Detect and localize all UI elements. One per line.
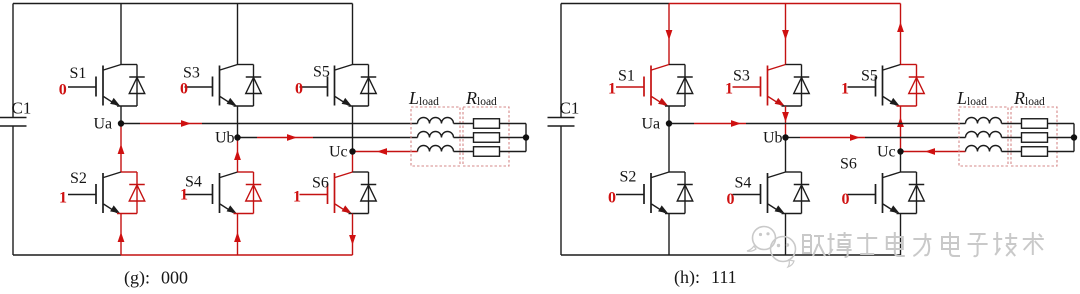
label S6 (h) xyxy=(840,156,857,173)
current arrow right on Ua line (h) xyxy=(731,120,741,127)
wire: S5 emitter to node Uc red (h) xyxy=(900,106,902,152)
label S3 (h) xyxy=(733,68,750,85)
svg-text:Rload: Rload xyxy=(1013,88,1045,108)
svg-text:0: 0 xyxy=(608,190,616,207)
svg-text:1: 1 xyxy=(59,190,67,207)
svg-text:Ua: Ua xyxy=(642,116,661,133)
inductor Lload phase 1 (h) xyxy=(966,118,1002,124)
wire: inductor to resistor phase 2 (h) xyxy=(1002,137,1022,139)
wire: load star point vertical (h) xyxy=(1073,124,1075,152)
label Lload (g) xyxy=(408,88,439,108)
resistor Rload phase 3 (g) xyxy=(474,147,500,157)
svg-text:S4: S4 xyxy=(735,175,752,192)
wire: inductor to resistor phase 3 (g) xyxy=(454,151,474,153)
transistor S2 IGBT (g) xyxy=(68,172,121,213)
wire: upper leg phase 2 red (h) xyxy=(785,4,787,65)
wire: S3 emitter to node Ub (g) xyxy=(237,106,239,138)
gate state value 1 of S1 (h) xyxy=(608,81,616,98)
label S5 (g) xyxy=(313,64,330,81)
svg-text:1: 1 xyxy=(293,189,301,206)
svg-text:Ub: Ub xyxy=(215,130,235,147)
wire: phase line Ua to load (g) xyxy=(202,123,418,125)
watermark character 9 xyxy=(1023,232,1044,255)
wire: phase line Ub red segment (h) xyxy=(800,137,865,139)
node Ua junction dot (g) xyxy=(118,120,124,126)
svg-text:1: 1 xyxy=(841,81,849,98)
svg-text:0: 0 xyxy=(59,82,67,99)
resistor Rload phase 1 (h) xyxy=(1022,119,1048,129)
anti-parallel diode of S1 (h) xyxy=(665,65,693,107)
wire: load star point vertical (g) xyxy=(525,124,527,152)
svg-text:Ub: Ub xyxy=(763,130,783,147)
label S2 (g) xyxy=(70,170,87,187)
label node Ua (g) xyxy=(94,116,113,133)
wire: resistor to star point phase 1 (g) xyxy=(500,123,527,125)
wire: inductor to resistor phase 1 (h) xyxy=(1002,123,1022,125)
label S4 (g) xyxy=(185,174,202,191)
wire: resistor to star point phase 2 (h) xyxy=(1048,137,1075,139)
watermark character 8 xyxy=(993,232,1017,256)
wire: bottom DC rail red part (g) xyxy=(121,254,353,256)
svg-text:0: 0 xyxy=(842,191,850,208)
svg-text:S6: S6 xyxy=(840,156,857,173)
gate state value 0 of S1 (g) xyxy=(59,82,67,99)
anti-parallel diode of S3 (g) xyxy=(234,65,262,107)
wire: bottom DC rail black part (g) xyxy=(13,254,121,256)
anti-parallel diode of S5 (g) xyxy=(349,65,377,107)
current arrow right on Ub line (g) xyxy=(287,134,297,141)
resistor group dashed box R (h) xyxy=(1011,107,1057,166)
anti-parallel diode of S3 (h) xyxy=(782,65,810,107)
gate state value 0 of S4 (h) xyxy=(727,191,735,208)
wire: node Ub down to S4 red (g) xyxy=(237,138,239,173)
wire: phase line Ua red segment (g) xyxy=(140,123,202,125)
wire: phase line Uc red return (g) xyxy=(353,151,418,153)
wire: node Ub down to S4 (h) xyxy=(785,138,787,173)
transistor S6 IGBT (h) xyxy=(848,172,901,213)
label node Uc (h) xyxy=(877,144,896,161)
label node Ua (h) xyxy=(642,116,661,133)
current arrow right on Ua line (g) xyxy=(181,120,191,127)
node Ub junction dot (g) xyxy=(234,134,240,140)
current arrow down through S6 (g) xyxy=(349,235,356,245)
svg-text:S2: S2 xyxy=(620,169,637,186)
watermark logo chat bubbles xyxy=(747,227,796,268)
wire: phase line Ub black lead (g) xyxy=(238,137,258,139)
wire: node Ua down to S2 red (g) xyxy=(120,124,122,173)
anti-parallel diode of S2 (g) xyxy=(117,172,145,214)
capacitor C1 (h) xyxy=(548,118,575,127)
current arrow up to rail at S5 (h) xyxy=(897,22,904,32)
wire: inductor to resistor phase 3 (h) xyxy=(1002,151,1022,153)
svg-text:Uc: Uc xyxy=(329,144,348,161)
transistor S1 IGBT (g) xyxy=(68,65,121,106)
wire: DC bus left vertical (h) xyxy=(560,4,562,256)
svg-text:S6: S6 xyxy=(312,175,329,192)
gate state value 1 of S3 (h) xyxy=(725,81,733,98)
wire: top DC rail (g) xyxy=(13,3,353,5)
wire: phase line Uc red return (h) xyxy=(901,151,966,153)
node Uc junction dot (h) xyxy=(897,148,903,154)
anti-parallel diode of S6 (g) xyxy=(349,172,377,214)
inductor Lload phase 1 (g) xyxy=(418,118,454,124)
label node Ub (g) xyxy=(215,130,235,147)
label Rload (h) xyxy=(1013,88,1045,108)
transistor S5 IGBT (g) xyxy=(300,65,353,106)
inductor Lload phase 3 (h) xyxy=(966,146,1002,152)
current arrow left on Uc line (h) xyxy=(925,148,935,155)
wire: phase line Ub to load (h) xyxy=(865,137,966,139)
node Ub junction dot (h) xyxy=(782,134,788,140)
wire: phase line Ua to load (h) xyxy=(746,123,966,125)
inductor group dashed box L (g) xyxy=(411,107,460,166)
wire: top DC rail red part (h) xyxy=(669,3,901,5)
svg-text:S2: S2 xyxy=(70,170,87,187)
resistor Rload phase 2 (h) xyxy=(1022,133,1048,143)
wire: phase line Ub black lead (h) xyxy=(786,137,801,139)
anti-parallel diode of S2 (h) xyxy=(665,172,693,214)
svg-text:C1: C1 xyxy=(560,99,580,118)
svg-text:Ua: Ua xyxy=(94,116,113,133)
wire: phase line Ua black lead (h) xyxy=(669,123,694,125)
svg-text:(g):: (g): xyxy=(124,268,150,289)
wire: upper leg phase 1 (g) xyxy=(120,4,122,65)
svg-text:0: 0 xyxy=(727,191,735,208)
wire: S2 to bottom rail red (g) xyxy=(120,214,122,256)
wire: S1 emitter to node Ua (h) xyxy=(668,106,670,124)
wire: S6 to bottom rail red (g) xyxy=(352,214,354,256)
caption (g): 000 xyxy=(124,268,188,289)
anti-parallel diode of S5 (h) xyxy=(897,65,925,107)
inductor Lload phase 3 (g) xyxy=(418,146,454,152)
gate state value 1 of S5 (h) xyxy=(841,81,849,98)
load star point junction dot (h) xyxy=(1071,134,1077,140)
node Uc junction dot (g) xyxy=(349,148,355,154)
transistor S4 IGBT (g) xyxy=(185,172,238,213)
wire: upper leg phase 1 red (h) xyxy=(668,4,670,65)
wire: S3 emitter to node Ub red (h) xyxy=(785,106,787,138)
svg-text:S1: S1 xyxy=(70,65,87,82)
label node Uc (g) xyxy=(329,144,348,161)
svg-text:Uc: Uc xyxy=(877,144,896,161)
wire: S6 to bottom rail (h) xyxy=(900,214,902,256)
current arrow up through S2 (g) xyxy=(118,232,125,242)
wire: phase line Ua black lead (g) xyxy=(121,123,140,125)
label S2 (h) xyxy=(620,169,637,186)
wire: phase line Ub red segment (g) xyxy=(257,137,313,139)
transistor S1 IGBT (h) xyxy=(616,65,669,106)
label S5 (h) xyxy=(861,68,878,85)
current arrow down S3 leg (h) xyxy=(782,112,789,122)
current arrow up to Ua (g) xyxy=(118,144,125,154)
label S1 (h) xyxy=(618,68,635,85)
label S6 (g) xyxy=(312,175,329,192)
load star point junction dot (g) xyxy=(523,134,529,140)
current arrow up to Ub (g) xyxy=(234,150,241,160)
wire: phase line Ua red segment (h) xyxy=(694,123,746,125)
wire: upper leg phase 2 (g) xyxy=(237,4,239,65)
label C1 (g) xyxy=(12,99,32,118)
current arrow up through S4 (g) xyxy=(234,232,241,242)
label S1 (g) xyxy=(70,65,87,82)
resistor group dashed box R (g) xyxy=(463,107,509,166)
wire: resistor to star point phase 1 (h) xyxy=(1048,123,1075,125)
current arrow right on Ub line (h) xyxy=(850,134,860,141)
wire: node Ua down to S2 (h) xyxy=(668,124,670,173)
svg-text:(h):: (h): xyxy=(674,267,700,288)
wire: DC bus left vertical (g) xyxy=(12,4,14,256)
resistor Rload phase 3 (h) xyxy=(1022,147,1048,157)
wire: resistor to star point phase 3 (h) xyxy=(1048,151,1075,153)
anti-parallel diode of S4 (g) xyxy=(234,172,262,214)
wire: top DC rail black part (h) xyxy=(561,3,669,5)
wire: S1 emitter to node Ua (g) xyxy=(120,106,122,124)
wire: bottom DC rail (h) xyxy=(561,254,901,256)
transistor S4 IGBT (h) xyxy=(733,172,786,213)
svg-text:111: 111 xyxy=(711,267,737,287)
transistor S5 IGBT (h) xyxy=(848,65,901,106)
wire: upper leg phase 3 (g) xyxy=(352,4,354,65)
gate state value 0 of S2 (h) xyxy=(608,190,616,207)
wire: resistor to star point phase 2 (g) xyxy=(500,137,527,139)
watermark character 2 xyxy=(828,232,852,257)
capacitor C1 (g) xyxy=(0,118,27,127)
watermark character 3 xyxy=(857,233,877,254)
caption (h): 111 xyxy=(674,267,737,288)
svg-text:1: 1 xyxy=(180,187,188,204)
svg-text:S3: S3 xyxy=(733,68,750,85)
current arrow down into S1 (h) xyxy=(666,30,673,40)
anti-parallel diode of S6 (h) xyxy=(897,172,925,214)
watermark character 5 xyxy=(913,233,931,256)
wire: S4 to bottom rail (h) xyxy=(785,214,787,256)
current arrow left on Uc line (g) xyxy=(377,148,387,155)
svg-text:1: 1 xyxy=(608,81,616,98)
svg-text:S5: S5 xyxy=(861,68,878,85)
gate state value 1 of S6 (g) xyxy=(293,189,301,206)
label S4 (h) xyxy=(735,175,752,192)
svg-text:1: 1 xyxy=(725,81,733,98)
svg-text:Lload: Lload xyxy=(408,88,439,108)
wire: inductor to resistor phase 1 (g) xyxy=(454,123,474,125)
label C1 (h) xyxy=(560,99,580,118)
wire: S2 to bottom rail (h) xyxy=(668,214,670,256)
label Rload (g) xyxy=(465,88,497,108)
inductor Lload phase 2 (g) xyxy=(418,132,454,138)
svg-text:Rload: Rload xyxy=(465,88,497,108)
watermark character 1 xyxy=(802,235,825,256)
gate state value 0 of S5 (g) xyxy=(295,81,303,98)
svg-text:S3: S3 xyxy=(183,65,200,82)
inductor Lload phase 2 (h) xyxy=(966,132,1002,138)
wire: S5 emitter to node Uc (g) xyxy=(352,106,354,152)
watermark character 4 xyxy=(887,232,905,256)
wire: phase line Ub to load (g) xyxy=(313,137,418,139)
wire: S4 to bottom rail red (g) xyxy=(237,214,239,256)
resistor Rload phase 1 (g) xyxy=(474,119,500,129)
inductor group dashed box L (h) xyxy=(959,107,1008,166)
wire: inductor to resistor phase 2 (g) xyxy=(454,137,474,139)
gate state value 0 of S3 (g) xyxy=(180,81,188,98)
svg-text:C1: C1 xyxy=(12,99,32,118)
current arrow up S5 leg (h) xyxy=(897,117,904,127)
label S3 (g) xyxy=(183,65,200,82)
node Ua junction dot (h) xyxy=(666,120,672,126)
svg-text:0: 0 xyxy=(180,81,188,98)
anti-parallel diode of S4 (h) xyxy=(782,172,810,214)
resistor Rload phase 2 (g) xyxy=(474,133,500,143)
wire: node Uc down to S6 red (g) xyxy=(352,152,354,173)
wire: resistor to star point phase 3 (g) xyxy=(500,151,527,153)
label node Ub (h) xyxy=(763,130,783,147)
gate state value 0 of S6 (h) xyxy=(842,191,850,208)
wire: upper leg phase 3 red (h) xyxy=(900,4,902,65)
transistor S2 IGBT (h) xyxy=(616,172,669,213)
svg-text:S5: S5 xyxy=(313,64,330,81)
svg-text:000: 000 xyxy=(161,268,188,288)
current arrow down into S3 (h) xyxy=(782,30,789,40)
watermark character 6 xyxy=(942,232,960,256)
anti-parallel diode of S1 (g) xyxy=(117,65,145,107)
svg-text:0: 0 xyxy=(295,81,303,98)
svg-text:Lload: Lload xyxy=(956,88,987,108)
transistor S3 IGBT (h) xyxy=(733,65,786,106)
label Lload (h) xyxy=(956,88,987,108)
svg-text:S1: S1 xyxy=(618,68,635,85)
gate state value 1 of S4 (g) xyxy=(180,187,188,204)
wire: node Uc down to S6 (h) xyxy=(900,152,902,173)
transistor S6 IGBT (g) xyxy=(300,172,353,213)
transistor S3 IGBT (g) xyxy=(185,65,238,106)
gate state value 1 of S2 (g) xyxy=(59,190,67,207)
watermark character 7 xyxy=(968,234,988,256)
